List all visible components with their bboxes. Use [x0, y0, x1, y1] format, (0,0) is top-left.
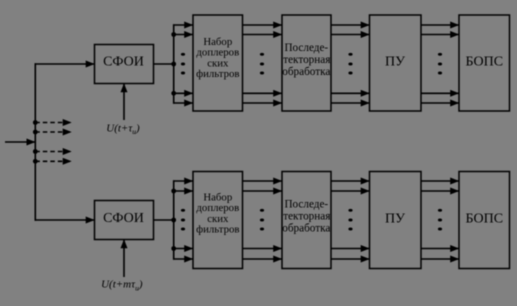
wire: bus to СФОИ top — [35, 63, 95, 65]
wire: обработка→ПУ ch1 (bottom) — [331, 180, 370, 182]
wire: fan bus vertical (top row) — [173, 24, 175, 103]
node: antenna tap 3 — [33, 149, 38, 154]
wire: bus to СФОИ bottom — [35, 219, 95, 221]
wire: обработка→ПУ ch4 (top) — [331, 102, 370, 104]
node: fan junction 2 (bottom) — [171, 189, 176, 194]
wire: обработка→ПУ ch3 (top) — [331, 92, 370, 94]
block U5 БОПС (top) — [459, 15, 510, 111]
wire: filters→обработка ch4 (bottom) — [243, 258, 283, 260]
wire: dashed antenna signal 3 — [35, 151, 71, 153]
node: antenna tap 2 — [33, 130, 38, 135]
svg-text:БОПС: БОПС — [466, 54, 504, 69]
wire: reference input arrow to СФОИ bottom — [123, 240, 125, 278]
block U9 ПУ (bottom) — [370, 172, 422, 269]
wire: fan arrow 1 into filters (top) — [173, 24, 193, 26]
block U10 БОПС (bottom) — [459, 172, 510, 269]
wire: ПУ→БОПС ch1 (top) — [421, 24, 459, 26]
wire: fan arrow 2 into filters (bottom) — [173, 190, 193, 192]
wire: fan arrow 1 into filters (bottom) — [173, 180, 193, 182]
wire: filters→обработка ch3 (top) — [243, 92, 283, 94]
block U1 СФОИ (top) — [95, 45, 154, 84]
wire: filters→обработка ch3 (bottom) — [243, 248, 283, 250]
wire: input arrow into antenna bus — [5, 141, 35, 143]
wire: обработка→ПУ ch2 (top) — [331, 34, 370, 36]
svg-text:Последе-: Последе- — [284, 199, 328, 211]
node: fan junction mid (top) — [171, 62, 176, 67]
wire: СФОИ top output to fan bus — [154, 63, 174, 65]
ellipsis: channels filters→обработка (top) — [260, 53, 264, 75]
wire: filters→обработка ch2 (top) — [243, 34, 283, 36]
block U7 Набор доплеровских фильтров (bottom) — [193, 172, 243, 269]
ellipsis: fan channels (top) — [181, 53, 185, 75]
wire: fan arrow 3 into filters (bottom) — [173, 248, 193, 250]
ellipsis: channels обработка→ПУ (top) — [348, 53, 352, 75]
wire: dashed antenna signal 4 — [35, 160, 71, 162]
wire: filters→обработка ch4 (top) — [243, 102, 283, 104]
svg-text:ПУ: ПУ — [385, 211, 405, 226]
wire: antenna bus vertical — [34, 63, 36, 220]
wire: ПУ→БОПС ch4 (top) — [421, 102, 459, 104]
svg-text:БОПС: БОПС — [466, 211, 504, 226]
ellipsis: channels ПУ→БОПС (bottom) — [438, 209, 442, 231]
node: fan junction 3 (bottom) — [171, 246, 176, 251]
wire: обработка→ПУ ch1 (top) — [331, 24, 370, 26]
wire: fan arrow 4 into filters (top) — [173, 102, 193, 104]
wire: reference input arrow to СФОИ top — [123, 84, 125, 121]
svg-text:обработка: обработка — [282, 66, 330, 78]
wire: ПУ→БОПС ch1 (bottom) — [421, 180, 459, 182]
wire: ПУ→БОПС ch3 (top) — [421, 92, 459, 94]
wire: обработка→ПУ ch3 (bottom) — [331, 248, 370, 250]
wire: dashed antenna signal 1 — [35, 122, 71, 124]
node: fan junction 2 (top) — [171, 32, 176, 37]
wire: dashed antenna signal 2 — [35, 131, 71, 133]
svg-text:Последе-: Последе- — [284, 42, 328, 54]
svg-text:текторная: текторная — [283, 211, 330, 223]
node: fan junction 3 (top) — [171, 91, 176, 96]
node: fan junction mid (bottom) — [171, 218, 176, 223]
wire: fan bus vertical (bottom row) — [173, 180, 175, 259]
ellipsis: channels filters→обработка (bottom) — [260, 209, 264, 231]
ellipsis: channels обработка→ПУ (bottom) — [348, 209, 352, 231]
wire: fan arrow 3 into filters (top) — [173, 92, 193, 94]
block U3 Последетекторная обработка (top) — [282, 15, 331, 111]
wire: filters→обработка ch1 (top) — [243, 24, 283, 26]
node: antenna tap 1 — [33, 120, 38, 125]
wire: ПУ→БОПС ch2 (top) — [421, 34, 459, 36]
wire: filters→обработка ch2 (bottom) — [243, 190, 283, 192]
svg-text:фильтров: фильтров — [196, 224, 239, 236]
wire: СФОИ bottom output to fan bus — [154, 219, 174, 221]
wire: fan arrow 2 into filters (top) — [173, 34, 193, 36]
ellipsis: fan channels (bottom) — [181, 209, 185, 231]
block U6 СФОИ (bottom) — [95, 201, 154, 240]
wire: обработка→ПУ ch4 (bottom) — [331, 258, 370, 260]
svg-text:ПУ: ПУ — [385, 54, 405, 69]
wire: ПУ→БОПС ch2 (bottom) — [421, 190, 459, 192]
wire: fan arrow 4 into filters (bottom) — [173, 258, 193, 260]
block U8 Последетекторная обработка (bottom) — [282, 172, 331, 269]
block U4 ПУ (top) — [370, 15, 422, 111]
block U2 Набор доплеровских фильтров (top) — [193, 15, 243, 111]
svg-text:обработка: обработка — [282, 222, 330, 234]
wire: ПУ→БОПС ch4 (bottom) — [421, 258, 459, 260]
svg-text:текторная: текторная — [283, 54, 330, 66]
node: antenna tap 4 — [33, 159, 38, 164]
wire: ПУ→БОПС ch3 (bottom) — [421, 248, 459, 250]
wire: filters→обработка ch1 (bottom) — [243, 180, 283, 182]
svg-text:СФОИ: СФОИ — [103, 211, 144, 226]
wire: обработка→ПУ ch2 (bottom) — [331, 190, 370, 192]
svg-text:СФОИ: СФОИ — [103, 54, 144, 69]
ellipsis: channels ПУ→БОПС (top) — [438, 53, 442, 75]
svg-text:фильтров: фильтров — [196, 68, 239, 80]
